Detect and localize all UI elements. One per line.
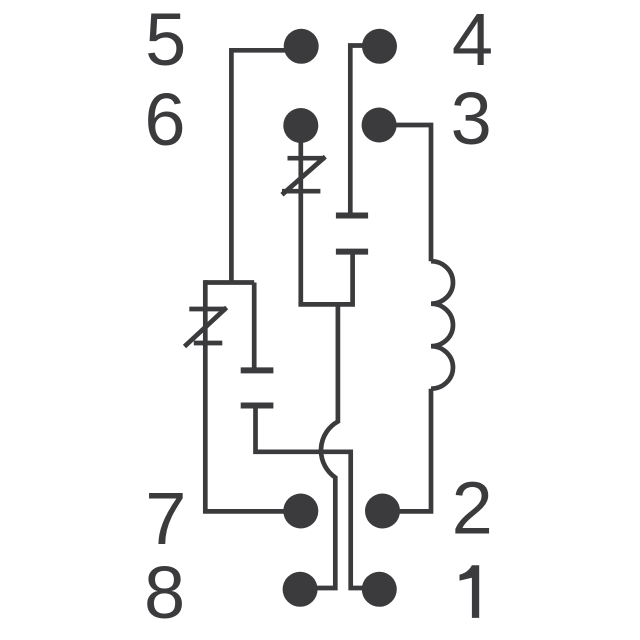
svg-text:4: 4 bbox=[452, 0, 493, 81]
svg-text:7: 7 bbox=[145, 477, 186, 560]
pin 1 terminal bbox=[362, 572, 397, 607]
wire pole-A to moving plate bbox=[252, 283, 257, 371]
pin 7 terminal bbox=[283, 494, 318, 529]
wire pin6 movable arm (pole B) bbox=[298, 126, 303, 305]
label pin 1 bbox=[460, 565, 480, 618]
wire pole-A movable arm (to pin 7) bbox=[205, 280, 300, 511]
pin 4 terminal bbox=[362, 29, 397, 64]
svg-text:6: 6 bbox=[144, 78, 185, 161]
wire pin4 to plate B1 bbox=[350, 46, 379, 216]
coil L1 bbox=[431, 261, 453, 389]
movable-contact arrow Z (pole B) bbox=[282, 157, 325, 195]
pin 6 terminal bbox=[283, 108, 318, 143]
pin 3 terminal bbox=[362, 108, 397, 143]
wire pole-A top bar bbox=[205, 280, 254, 285]
svg-text:3: 3 bbox=[451, 77, 492, 160]
contact plate B1 (pole B stationary) bbox=[336, 213, 368, 219]
wire plate A2 to pin 1 bbox=[256, 406, 380, 589]
pin 8 terminal bbox=[283, 572, 318, 607]
svg-text:2: 2 bbox=[452, 467, 493, 550]
svg-text:5: 5 bbox=[145, 0, 186, 81]
contact plate B2 (pole B moving) bbox=[336, 249, 368, 255]
wire pin5 to pole-A top bar bbox=[231, 50, 301, 282]
wire pole-B bottom bar to moving plate bbox=[298, 252, 352, 305]
wire pole-B bar to pin 8 with crossover hop bbox=[300, 304, 338, 588]
svg-text:8: 8 bbox=[144, 551, 185, 634]
pin 2 terminal bbox=[365, 494, 400, 529]
contact plate A2 (pole A stationary) bbox=[241, 403, 274, 409]
pin 5 terminal bbox=[284, 29, 319, 64]
coil wire to pin 2 bbox=[383, 389, 432, 512]
coil wire from pin 3 bbox=[379, 125, 431, 261]
movable-contact arrow Z (pole A) bbox=[185, 308, 227, 347]
contact plate A1 (pole A moving) bbox=[241, 367, 274, 373]
